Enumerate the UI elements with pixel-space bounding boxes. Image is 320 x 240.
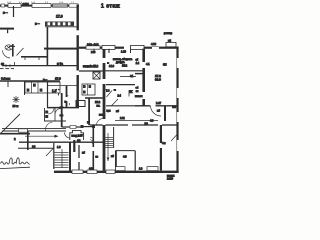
wall segment [21,56,47,58]
door swing arc [3,51,11,59]
dimension arrow [25,135,57,137]
svg-text:38.0: 38.0 [155,77,161,81]
svg-text:пем: пем [99,114,104,117]
shrub blob [5,45,13,50]
door leaf [107,91,113,98]
stairs2 [106,138,114,148]
door gap [124,46,130,49]
window gap [152,46,159,49]
wall below room [47,107,79,109]
svg-text:17.9: 17.9 [56,15,63,19]
svg-text:и—: и— [43,79,47,82]
wall x47 vertical [47,27,49,66]
top wall right wing [79,47,179,49]
svg-text:17.9: 17.9 [55,77,61,81]
wall below wc [88,98,90,125]
wc block right [82,84,95,95]
spine wall right wing [103,49,106,171]
wall V3 [164,106,166,122]
svg-text:20 м: 20 м [13,104,19,108]
vestibule wall [18,147,54,149]
left wall of lower wing [27,131,29,150]
svg-text:2.61: 2.61 [120,117,125,120]
svg-text:1:100: 1:100 [167,177,174,180]
svg-text:4.п: 4.п [162,141,166,145]
svg-text:4.08: 4.08 [89,168,94,171]
wall [85,97,103,99]
wall [66,86,68,109]
signature [1,158,30,165]
svg-text:14.9: 14.9 [109,64,115,68]
svg-text:4.0: 4.0 [123,155,127,159]
window [72,170,83,173]
window [131,45,145,49]
svg-text:пищебл 15.2: пищебл 15.2 [83,64,99,68]
door leaf diagonal [17,48,24,56]
elevator shaft [93,72,100,79]
svg-text:4.1: 4.1 [146,62,150,66]
svg-text:1 этаж: 1 этаж [101,3,120,9]
raised window box [116,167,126,171]
corridor end hatch [90,137,93,139]
window W1 [1,4,5,7]
svg-text:вход 2.37: вход 2.37 [72,133,84,137]
corridor double lines [2,128,66,130]
door leaf top right [171,135,177,142]
corridor line right [79,70,103,72]
ramp diagonal [0,114,20,134]
svg-text:1.9: 1.9 [57,145,61,149]
wing top wall [19,141,104,143]
entrance complex vertical wall [61,93,63,127]
door swing arc [65,133,71,139]
thick wall stub left [0,133,30,135]
porch bar top-left [0,28,14,30]
corridor wall bottom right wing [90,124,103,126]
svg-text:дежурн.: дежурн. [116,61,125,64]
door gap in wall A [76,30,79,36]
right stair wall [69,142,71,171]
room 1.3 walls [47,82,49,108]
thin dim line [115,119,158,121]
svg-text:15.2: 15.2 [122,63,128,67]
svg-text:при: при [107,109,112,112]
porch stepped outline [70,130,84,140]
wall A vertical [77,5,79,108]
stub [130,49,132,53]
svg-text:1.10: 1.10 [121,51,126,54]
bottom outer wall [54,171,179,173]
svg-text:и—: и— [3,11,8,15]
door arc below [45,122,52,131]
corridor bottom wall [0,80,60,82]
window box on corridor [19,129,28,132]
dim marks above top wall [7,2,75,4]
stairs1 left wall [53,143,55,169]
bottom rooms dividers [115,151,117,171]
window [106,170,115,173]
entry L-wall [12,44,14,57]
svg-text:пл.: пл. [97,105,101,108]
hatched wall band [45,22,74,27]
tick [14,62,16,66]
small rooms below [44,108,46,121]
svg-text:пом.сч: пом.сч [135,95,143,98]
svg-text:1.3: 1.3 [52,89,57,93]
door arc [151,106,162,117]
window gap piece [70,126,76,129]
svg-text:и 6а: и 6а [57,62,63,66]
raised window box [147,167,158,171]
wall V2 [142,49,145,107]
wall x79 with gap [78,145,80,158]
window [86,46,100,49]
window W3 [32,4,51,8]
stub below wall [108,49,110,53]
window W2 [8,4,21,8]
svg-text:и—: и— [35,21,40,25]
svg-text:размер: размер [164,32,173,35]
svg-text:14.0 · 14.2: 14.0 · 14.2 [87,44,99,47]
flag mark [128,90,130,97]
window W5 [69,4,78,7]
stairs1 arrow [46,148,54,157]
north arrow symbol [13,96,20,103]
window [102,45,115,49]
svg-text:2.47: 2.47 [156,101,162,105]
svg-text:8П: 8П [163,62,167,66]
svg-text:13.2: 13.2 [95,100,101,104]
wall right block [135,105,150,107]
top wall left wing [0,5,79,7]
wall x75 [73,140,75,152]
wall mid [106,84,135,86]
window W4 gray [53,4,68,7]
wc block left [25,82,60,93]
svg-text:240: 240 [91,50,96,54]
svg-text:С.Зали: С.Зали [1,77,11,81]
small closet box [76,101,85,107]
corridor top wall [2,65,78,67]
interior stub wall [13,6,15,17]
svg-text:4.33: 4.33 [151,42,157,46]
wall [24,81,26,95]
wall to V2 [135,73,143,75]
svg-text:и 14.2: и 14.2 [23,3,30,5]
door gap2 in wall A [76,71,79,76]
right outer wall [176,47,178,173]
wall x92.5 [92,128,94,147]
wall y127 [62,126,70,128]
bar with black caps [81,126,95,128]
upper T wall [44,48,77,50]
svg-text:14: 14 [32,144,36,148]
window [87,170,97,173]
window raised at corner [166,42,176,46]
